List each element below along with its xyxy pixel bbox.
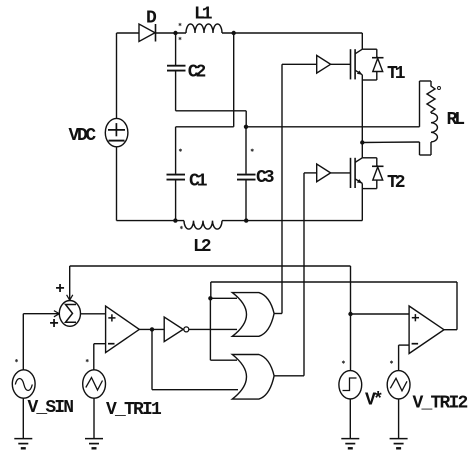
svg-text:VDC: VDC bbox=[69, 126, 97, 146]
svg-text:C3: C3 bbox=[256, 168, 275, 188]
svg-text:+: + bbox=[55, 280, 65, 298]
svg-text:T1: T1 bbox=[387, 64, 406, 84]
svg-text:V_TRI2: V_TRI2 bbox=[413, 394, 469, 414]
svg-text:T2: T2 bbox=[387, 173, 406, 193]
svg-text:RL: RL bbox=[447, 110, 466, 130]
svg-text:V_SIN: V_SIN bbox=[28, 398, 75, 418]
svg-text:L1: L1 bbox=[194, 5, 213, 25]
svg-text:V*: V* bbox=[365, 391, 384, 411]
svg-text:D: D bbox=[146, 9, 157, 29]
svg-text:V_TRI1: V_TRI1 bbox=[106, 400, 162, 420]
svg-text:+: + bbox=[49, 315, 59, 333]
svg-text:L2: L2 bbox=[193, 237, 212, 257]
svg-text:C2: C2 bbox=[188, 63, 207, 83]
svg-text:C1: C1 bbox=[189, 172, 208, 192]
